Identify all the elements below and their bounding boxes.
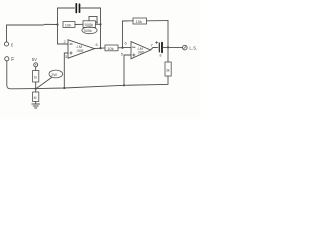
terminal LS inner mark (184, 47, 186, 49)
resistor R3 (105, 45, 118, 51)
U2 plus sign (133, 54, 135, 56)
svg-text:5V: 5V (32, 57, 37, 62)
wire: U2 feedback top left segment (123, 20, 134, 22)
svg-text:2: 2 (64, 39, 67, 44)
resistor R6 (33, 71, 39, 83)
terminal LS (183, 45, 188, 50)
resistor R1 (63, 22, 75, 28)
node A: summing junction (56, 23, 58, 25)
U2 minus sign (133, 46, 135, 48)
wire: summing node vertical (cap loop to inverting input) (57, 8, 59, 44)
wire: R5 down to bus corner (166, 76, 168, 84)
svg-text:2W: 2W (51, 73, 57, 77)
svg-text:5: 5 (121, 52, 124, 57)
wire: output node down to R5 (167, 47, 169, 62)
node B: feedback/right vertical junction (99, 23, 101, 25)
terminal E (input 1) (4, 42, 8, 46)
ground bus wire (36, 84, 166, 88)
node E: U2 input junction (121, 47, 123, 49)
wire: R6 to bus junction (35, 82, 37, 89)
wire: U2 feedback left vertical (122, 21, 124, 48)
ground (32, 104, 40, 108)
wire: R3 to U2 inverting input (118, 46, 131, 48)
svg-text:380: 380 (138, 51, 145, 55)
resistor R5 (165, 62, 171, 76)
wire: U2 non-inverting input down to bus (124, 55, 131, 85)
svg-text:7: 7 (151, 43, 154, 48)
node C: U1 + input to bus junction (63, 87, 65, 89)
U1 minus sign (70, 43, 72, 45)
svg-text:M: M (34, 96, 37, 100)
U1 plus sign (70, 52, 72, 54)
node F: U2 + input to bus junction (123, 84, 125, 86)
wire: supply to R6 (35, 67, 37, 71)
wire: R2 to output vertical (96, 23, 101, 25)
node G: output junction (167, 46, 169, 48)
resistor R4 (133, 18, 147, 24)
wire: cap to LS terminal (163, 46, 182, 48)
wire: R2 wiper loop (89, 16, 97, 23)
wire: terminal F down to bus (7, 61, 36, 89)
node H: divider junction (35, 88, 37, 90)
R2 wiper arrowhead (96, 22, 98, 24)
R2 value oval (82, 27, 97, 34)
wire: node H down to R7 (35, 89, 37, 92)
leader line from oval to node H (37, 78, 52, 89)
svg-text:500k: 500k (84, 29, 92, 33)
svg-text:15k: 15k (136, 19, 142, 24)
svg-text:308: 308 (77, 48, 84, 53)
svg-text:500k: 500k (85, 22, 94, 27)
wire: input row horizontal to summing node (7, 23, 58, 26)
wire: R1 to R2 (75, 23, 83, 25)
svg-text:8: 8 (160, 54, 162, 58)
svg-text:6: 6 (125, 41, 128, 46)
wire: non-inverting input U1 down to ground bus (64, 53, 68, 88)
svg-text:10k: 10k (107, 46, 113, 51)
annotation oval 2W (49, 70, 63, 78)
wire: R7 to ground (35, 102, 37, 105)
svg-text:6: 6 (96, 42, 99, 47)
capacitor C2 (159, 43, 162, 53)
wire: U2 feedback right vertical down to output (167, 21, 169, 48)
wire: inverting input of U1 (58, 43, 69, 45)
svg-text:3: 3 (65, 54, 68, 59)
supply terminal (34, 63, 38, 67)
op-amp U1 (68, 40, 95, 58)
resistor R7 (33, 92, 39, 102)
svg-text:1k: 1k (34, 76, 38, 80)
wire: top feedback loop left-to-cap (58, 7, 75, 9)
capacitor C2 polarity mark (156, 41, 158, 43)
svg-text:L.S.: L.S. (189, 46, 197, 51)
wire: top feedback loop cap-to-right (81, 7, 101, 9)
svg-text:3k: 3k (166, 69, 170, 73)
svg-text:ε: ε (11, 42, 14, 48)
op-amp U2 (131, 42, 151, 59)
svg-text:F: F (11, 57, 14, 63)
svg-text:10k: 10k (65, 23, 71, 28)
wire: U1 output (95, 47, 106, 50)
supply terminal dot (35, 64, 36, 65)
wire: U2 output to cap (151, 47, 158, 50)
terminal F (input 2) (5, 57, 9, 61)
wire: terminal E up to feedback row (6, 25, 8, 42)
potentiometer R2 (83, 21, 96, 28)
node D: output/feedback junction (99, 47, 101, 49)
wire: right vertical of feedback down to output (100, 8, 102, 48)
capacitor C1 (76, 4, 79, 13)
wire: U2 feedback top right segment (147, 20, 169, 22)
